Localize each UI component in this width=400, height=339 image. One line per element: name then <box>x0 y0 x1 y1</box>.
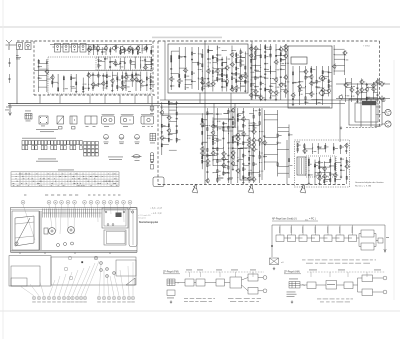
resistor R162 <box>325 145 326 148</box>
transformer screws <box>105 211 125 225</box>
value label <box>214 142 216 145</box>
value label <box>121 66 123 69</box>
secondary bus <box>8 105 160 107</box>
resistor R153 <box>330 179 331 182</box>
wire <box>208 85 213 87</box>
value label <box>180 56 182 59</box>
capacitor C10 <box>88 87 90 90</box>
capacitor C16 <box>150 83 152 86</box>
wire <box>38 59 40 92</box>
leader line <box>103 270 105 296</box>
value label <box>178 138 181 141</box>
value label <box>277 91 279 94</box>
wire <box>367 96 374 98</box>
transistor T61 <box>343 82 347 88</box>
junction <box>308 170 309 171</box>
junction <box>239 56 242 59</box>
wire <box>147 95 149 104</box>
junction <box>250 58 253 61</box>
junction <box>275 54 278 57</box>
resistor R135 <box>253 115 254 118</box>
trimmer 1 <box>57 244 60 247</box>
resistor R97 <box>176 130 177 133</box>
wire <box>323 71 329 73</box>
resistor R44 <box>212 71 213 74</box>
bus mid <box>34 70 153 72</box>
wire <box>93 74 98 76</box>
inline callout 1 <box>68 256 72 260</box>
wire <box>136 74 141 76</box>
junction <box>321 70 324 73</box>
tick <box>252 272 254 277</box>
wire <box>233 141 238 143</box>
NF stage box lower <box>361 243 374 250</box>
junction <box>119 60 122 63</box>
junction <box>315 98 318 101</box>
value label <box>233 72 236 75</box>
ground <box>308 182 310 185</box>
wire <box>373 91 377 93</box>
tick <box>327 225 329 235</box>
capacitor C19 <box>170 67 172 70</box>
capacitor C31 <box>240 55 242 58</box>
value label <box>233 88 235 91</box>
resistor R14 <box>106 81 107 84</box>
coil L11 <box>299 93 300 96</box>
capacitor C23 <box>191 58 193 61</box>
value label <box>225 164 227 167</box>
leader line <box>91 205 92 217</box>
value label <box>252 71 254 74</box>
leader line <box>20 286 34 296</box>
FM out box upper <box>248 274 258 281</box>
resistor R75 <box>265 88 266 91</box>
diode D2 <box>146 48 148 50</box>
resistor R164 <box>340 146 341 149</box>
value label <box>244 154 246 157</box>
AM gen label <box>289 278 298 281</box>
value label <box>368 96 370 99</box>
transistor T46 <box>283 44 287 50</box>
junction <box>279 58 282 61</box>
label Netzteil <box>296 141 300 144</box>
junction <box>217 121 218 122</box>
junction <box>263 161 266 164</box>
resistor R155 <box>335 163 336 166</box>
FM tuner dashed box right <box>152 41 154 95</box>
callout circle b18 <box>122 296 125 299</box>
wire <box>213 159 217 161</box>
value label <box>214 147 216 150</box>
callout circle b20 <box>131 296 134 299</box>
transistor T18 <box>177 78 181 84</box>
wire <box>98 57 100 70</box>
junction <box>37 74 40 77</box>
wire <box>106 72 108 90</box>
value label <box>272 90 275 93</box>
switch grid S2 <box>84 142 99 157</box>
transistor T92 <box>241 131 245 137</box>
wire <box>92 72 94 91</box>
value label <box>277 61 279 64</box>
ground <box>88 72 90 75</box>
wire <box>241 57 246 59</box>
wire <box>241 85 246 87</box>
callout label <box>97 301 101 304</box>
faint caption above box <box>152 37 222 39</box>
wire <box>134 95 136 104</box>
transistor T27 <box>230 52 234 58</box>
resistor R163 <box>333 147 334 150</box>
resistor R34 <box>185 75 186 78</box>
ZF FM title <box>163 271 180 274</box>
value label <box>203 77 206 80</box>
wire <box>137 45 139 55</box>
wire <box>162 143 169 145</box>
junction <box>270 78 271 79</box>
junction <box>167 132 170 135</box>
resistor R76 <box>265 55 266 58</box>
junction <box>212 80 213 81</box>
transistor T96 <box>247 176 251 182</box>
resistor R147 <box>314 164 315 167</box>
junction <box>248 124 251 127</box>
resistor R146 <box>308 159 309 162</box>
wire <box>242 108 244 183</box>
wire <box>324 172 330 174</box>
ground <box>340 175 342 178</box>
capacitor C15 <box>150 76 152 79</box>
capacitor C55 <box>322 94 324 97</box>
junction <box>202 71 203 72</box>
amplifier dashed box left <box>157 41 159 185</box>
resistor R150 <box>324 180 325 183</box>
value label <box>265 155 267 158</box>
IF transformer Fi4 <box>80 44 86 53</box>
inline callout 2 <box>64 267 68 271</box>
value label <box>186 86 189 89</box>
chassis bottom line <box>11 251 138 253</box>
value label <box>314 150 317 153</box>
transistor T19 <box>183 68 187 74</box>
wire <box>241 57 246 59</box>
value label <box>279 134 282 137</box>
capacitor C26 <box>216 54 218 57</box>
leader line <box>123 205 126 223</box>
junction <box>212 171 215 174</box>
wire <box>314 160 316 184</box>
transistor T34 <box>249 92 253 98</box>
capacitor C71 <box>227 154 229 157</box>
resistor R99 <box>176 112 177 115</box>
value label <box>282 62 284 65</box>
value label <box>342 169 345 172</box>
capacitor C34 <box>254 85 256 88</box>
leader line <box>120 270 124 296</box>
resistor R159 <box>297 144 298 147</box>
value label <box>228 58 230 61</box>
wire <box>171 50 179 52</box>
value label <box>48 78 51 81</box>
wire <box>213 172 217 174</box>
wire <box>249 113 254 115</box>
transistor T73 <box>167 128 171 134</box>
capacitor C3 <box>104 57 106 60</box>
junction <box>135 62 136 63</box>
capacitor C90 <box>340 158 342 161</box>
capacitor C50 <box>292 81 294 84</box>
wire <box>333 143 335 154</box>
junction <box>351 96 352 97</box>
wire <box>243 135 249 137</box>
resistor R57 <box>236 79 237 82</box>
resistor R110 <box>212 142 213 145</box>
wire <box>329 157 331 184</box>
capacitor C92 <box>317 146 319 149</box>
junction <box>276 148 279 151</box>
value label <box>301 89 303 92</box>
ground <box>232 168 234 171</box>
wire <box>204 41 206 184</box>
diode D13 <box>212 140 214 142</box>
ground G20 <box>340 126 342 129</box>
transistor T6 <box>127 45 131 51</box>
value label <box>346 52 348 55</box>
leader line <box>49 205 52 229</box>
capacitor C56 <box>328 71 330 74</box>
value label <box>363 89 365 92</box>
transistor T111 <box>344 143 348 149</box>
capacitor C60 <box>176 125 178 128</box>
ground <box>150 87 152 90</box>
value label <box>330 71 332 74</box>
junction <box>298 86 301 89</box>
NF stage box 2 <box>288 235 296 242</box>
dial drum <box>15 242 18 245</box>
callout circle b9 <box>71 296 74 299</box>
coil L4 <box>126 85 127 88</box>
transistor T56 <box>320 87 324 93</box>
transistor T5 <box>143 65 147 71</box>
level value <box>302 227 303 234</box>
value label <box>40 65 42 68</box>
ground <box>125 72 127 75</box>
callout circle b14 <box>102 296 105 299</box>
value label <box>219 120 221 123</box>
resistor R8 <box>137 51 138 54</box>
junction <box>178 55 181 58</box>
resistor R37 <box>198 62 199 65</box>
junction <box>176 107 177 108</box>
resistor R106 <box>207 128 208 131</box>
resistor R127 <box>237 118 238 121</box>
trimmer 3 <box>71 242 74 245</box>
capacitor C2 <box>101 51 103 54</box>
transistor T45 <box>283 53 287 59</box>
value label <box>324 89 327 92</box>
value label <box>279 142 281 145</box>
value label <box>257 94 259 97</box>
value label <box>282 68 285 71</box>
value label <box>94 83 97 86</box>
note pencil <box>138 215 151 220</box>
knob 1 <box>100 262 103 265</box>
bus B3 <box>160 106 330 108</box>
value label <box>122 51 125 54</box>
value label <box>307 101 309 104</box>
wire <box>254 172 260 174</box>
dial box <box>12 211 39 250</box>
wire <box>243 165 249 167</box>
transistor T78 <box>205 158 209 164</box>
wire <box>251 82 255 84</box>
transistor T57 <box>320 76 324 82</box>
wire <box>185 84 192 86</box>
tick <box>352 225 354 235</box>
wire <box>299 66 301 105</box>
resistor R10 <box>98 64 99 67</box>
capacitor C86 <box>308 174 310 177</box>
value label <box>257 90 259 93</box>
capacitor C76 <box>232 135 234 138</box>
value label <box>209 61 211 64</box>
capacitor C88 <box>329 165 331 168</box>
wire <box>280 46 282 100</box>
knob 4 <box>106 275 109 278</box>
footnote specks <box>24 195 120 196</box>
junction <box>135 74 138 77</box>
coil L15 <box>217 127 218 130</box>
resistor R105 <box>207 164 208 167</box>
wire <box>125 72 127 92</box>
junction <box>323 178 326 181</box>
transistor T71 <box>160 110 164 116</box>
junction <box>216 158 219 161</box>
power transistor Q1 <box>319 74 325 81</box>
wire <box>223 172 228 174</box>
transistor T15 <box>45 69 49 75</box>
junction <box>312 147 313 148</box>
capacitor C57 <box>356 87 358 90</box>
value label <box>306 150 308 153</box>
transistor T77 <box>205 178 209 184</box>
capacitor C62 <box>201 125 203 128</box>
value label <box>353 89 355 92</box>
value label <box>203 82 205 85</box>
transistor T55 <box>309 80 313 86</box>
resistor R83 <box>299 89 300 92</box>
wire <box>308 157 310 184</box>
value label <box>363 81 366 84</box>
value label <box>255 122 257 125</box>
resistor R24 <box>58 88 59 91</box>
capacitor C24 <box>207 77 209 80</box>
junction <box>207 125 208 126</box>
resistor R111 <box>212 137 213 140</box>
svg-text:NF-Pegel (am Gerät) [ U: NF-Pegel (am Gerät) [ U <box>272 218 297 221</box>
resistor R73 <box>260 82 261 85</box>
wire <box>146 45 148 53</box>
wire <box>261 76 266 78</box>
junction <box>216 147 219 150</box>
capacitor C78 <box>242 111 244 114</box>
resistor R82 <box>292 72 293 75</box>
FM stage box 2 <box>196 279 205 286</box>
junction <box>242 177 245 180</box>
value label <box>310 163 312 166</box>
junction <box>333 70 336 73</box>
value label <box>152 76 154 79</box>
wire <box>296 237 303 239</box>
junction <box>237 148 238 149</box>
junction <box>217 63 218 64</box>
resistor R51 <box>222 79 223 82</box>
junction <box>211 61 214 64</box>
wire <box>254 46 256 99</box>
callout circle b7 <box>62 296 65 299</box>
resistor R95 <box>168 124 169 127</box>
junction <box>223 147 224 148</box>
value label <box>348 165 351 168</box>
wire <box>162 115 169 117</box>
wire <box>207 154 213 156</box>
wire <box>134 57 136 70</box>
wire <box>161 102 163 155</box>
capacitor C17 <box>38 77 40 80</box>
junction <box>260 67 261 68</box>
diode D14 <box>223 123 225 125</box>
wire <box>222 80 227 82</box>
transistor T98 <box>251 129 255 135</box>
wire <box>238 130 244 132</box>
wire <box>226 56 228 91</box>
wire <box>231 46 233 92</box>
value label <box>237 54 239 57</box>
leader line <box>67 205 69 231</box>
value label <box>257 47 259 50</box>
resistor R72 <box>255 51 256 54</box>
capacitor C79 <box>242 163 244 166</box>
value label <box>193 72 195 75</box>
resistor R129 <box>243 142 244 145</box>
transistor T103 <box>262 140 266 146</box>
value label <box>250 169 252 172</box>
junction <box>88 46 89 47</box>
wire <box>105 45 107 56</box>
callout circle 7 <box>83 200 87 204</box>
wire <box>320 237 328 239</box>
resistor R131 <box>243 168 244 171</box>
value label <box>244 133 246 136</box>
junction <box>125 80 128 83</box>
leader line <box>104 205 105 213</box>
divider <box>40 211 42 250</box>
resistor R4 <box>120 50 121 53</box>
wire <box>222 80 227 82</box>
AM guide labels <box>309 269 381 272</box>
value label <box>246 75 248 78</box>
junction <box>206 112 209 115</box>
resistor R98 <box>176 138 177 141</box>
resistor R26 <box>71 77 72 80</box>
value label <box>255 130 257 133</box>
pot knob legend 2 <box>119 134 124 144</box>
junction <box>213 160 214 161</box>
capacitor C46 <box>280 68 282 71</box>
callout circle b19 <box>127 296 130 299</box>
wire <box>264 144 277 146</box>
leader line <box>69 270 79 296</box>
